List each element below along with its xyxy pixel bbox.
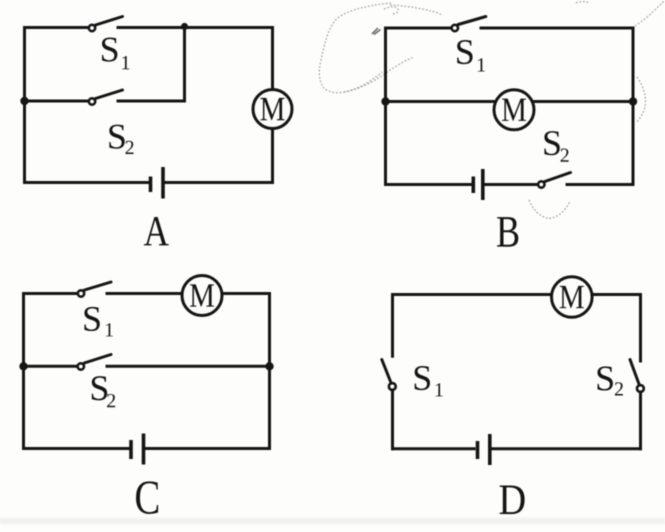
switch S2 (C) lever — [84, 355, 111, 364]
label S2 (D) — [597, 366, 612, 390]
switch S2 (D) lever — [630, 360, 639, 384]
battery (C) negative short plate — [129, 440, 133, 459]
answer label B — [497, 217, 518, 247]
label S1 (D) subscript 1 — [436, 383, 443, 396]
motor M (B) circle — [494, 90, 534, 130]
motor M (A) letter — [261, 98, 285, 120]
switch S1 (A) lever — [96, 17, 123, 26]
node: junction dot right (B) — [629, 97, 637, 105]
label S2 (C) — [92, 376, 107, 400]
motor M (C) circle — [182, 276, 222, 316]
node: junction dot left (B) — [381, 97, 389, 105]
switch S2 (B) lever — [545, 173, 571, 182]
wire: C middle branch left segment — [24, 365, 78, 368]
switch S1 (D) pivot circle — [389, 383, 396, 390]
switch S1 (B) pivot circle — [452, 25, 458, 31]
answer label C — [136, 481, 158, 514]
answer label D — [500, 486, 525, 515]
node: junction dot left-middle (A) — [20, 97, 28, 105]
wire: A top-left segment + left edge + bottom-left segment — [25, 28, 150, 183]
wire: C bottom-right segment + right edge + top-right segment through motor — [107, 294, 270, 449]
label S2 (B) subscript 2 — [561, 149, 569, 162]
wire: C middle branch right segment — [107, 365, 270, 368]
switch S1 (C) pivot circle — [78, 290, 84, 296]
node: junction dot top (A) — [181, 23, 188, 30]
switch S1 (D) lever — [382, 360, 391, 382]
switch S1 (A) pivot circle — [89, 25, 95, 31]
switch S1 (C) lever — [85, 282, 112, 290]
label S1 (A) — [102, 37, 117, 61]
label S2 (C) subscript 2 — [107, 394, 115, 407]
label S1 (C) — [84, 307, 99, 331]
motor M (C) letter — [190, 284, 214, 306]
label S2 (D) subscript 2 — [615, 382, 623, 395]
motor M (D) letter — [560, 286, 584, 308]
label S1 (B) — [457, 40, 472, 64]
motor M (B) letter — [502, 99, 526, 121]
battery (D) positive long plate — [488, 434, 492, 465]
switch S1 (B) lever — [458, 17, 486, 25]
wire: B top-left segment + left edge + bottom-left segment — [386, 28, 472, 185]
node: junction dot left (C) — [19, 362, 27, 370]
wire: B middle branch through motor — [386, 100, 634, 103]
label S1 (D) — [415, 366, 430, 390]
switch S2 (D) pivot circle — [637, 385, 644, 392]
battery (D) negative short plate — [476, 441, 480, 459]
battery (C) positive long plate — [142, 434, 146, 465]
switch S2 (A) pivot circle — [89, 98, 95, 104]
label S1 (B) subscript 1 — [478, 58, 485, 71]
battery (B) negative short plate — [471, 177, 475, 194]
wire: A bottom-right segment + right edge lower — [164, 129, 273, 183]
wire: D left edge upper + top wire + right edge upper — [393, 295, 641, 362]
background scan marks (decorative) — [319, 0, 665, 219]
label S2 (A) — [109, 125, 124, 149]
wire: A middle branch right segment — [118, 100, 185, 103]
node: junction dot right (C) — [265, 362, 273, 370]
wire: D left edge lower below switch S1 — [391, 392, 394, 449]
wire: D bottom-right segment — [491, 447, 641, 450]
label S2 (B) — [544, 131, 559, 155]
battery (A) negative short plate — [149, 177, 153, 193]
switch S2 (A) lever — [96, 90, 123, 99]
label S1 (A) subscript 1 — [122, 56, 129, 69]
wire: A right edge upper + top-right segment — [118, 28, 273, 90]
battery (B) positive long plate — [481, 169, 485, 200]
label S2 (A) subscript 2 — [125, 141, 133, 154]
wire: D bottom-left segment — [393, 447, 475, 450]
battery (A) positive long plate — [161, 167, 165, 199]
switch S2 (B) pivot circle — [538, 181, 544, 187]
motor M (A) circle — [253, 90, 292, 129]
wire: B bottom middle segment (battery to switch S2) — [485, 183, 538, 186]
wire: A vertical connector from top junction to middle branch — [183, 28, 186, 102]
motor M (D) circle — [552, 277, 593, 318]
switch S2 (C) pivot circle — [78, 363, 84, 369]
label S1 (C) subscript 1 — [106, 323, 113, 336]
answer label A — [144, 217, 169, 245]
wire: A middle branch left segment — [25, 100, 89, 103]
wire: C top-left segment + left edge + bottom-left segment — [24, 294, 131, 449]
background scan marks 2 (decorative) — [372, 28, 381, 35]
wire: D right edge lower below switch S2 — [639, 394, 642, 449]
wire: B bottom-right segment + right edge + top-right segment — [481, 28, 633, 185]
bottom scan streak (decorative) — [0, 518, 665, 524]
